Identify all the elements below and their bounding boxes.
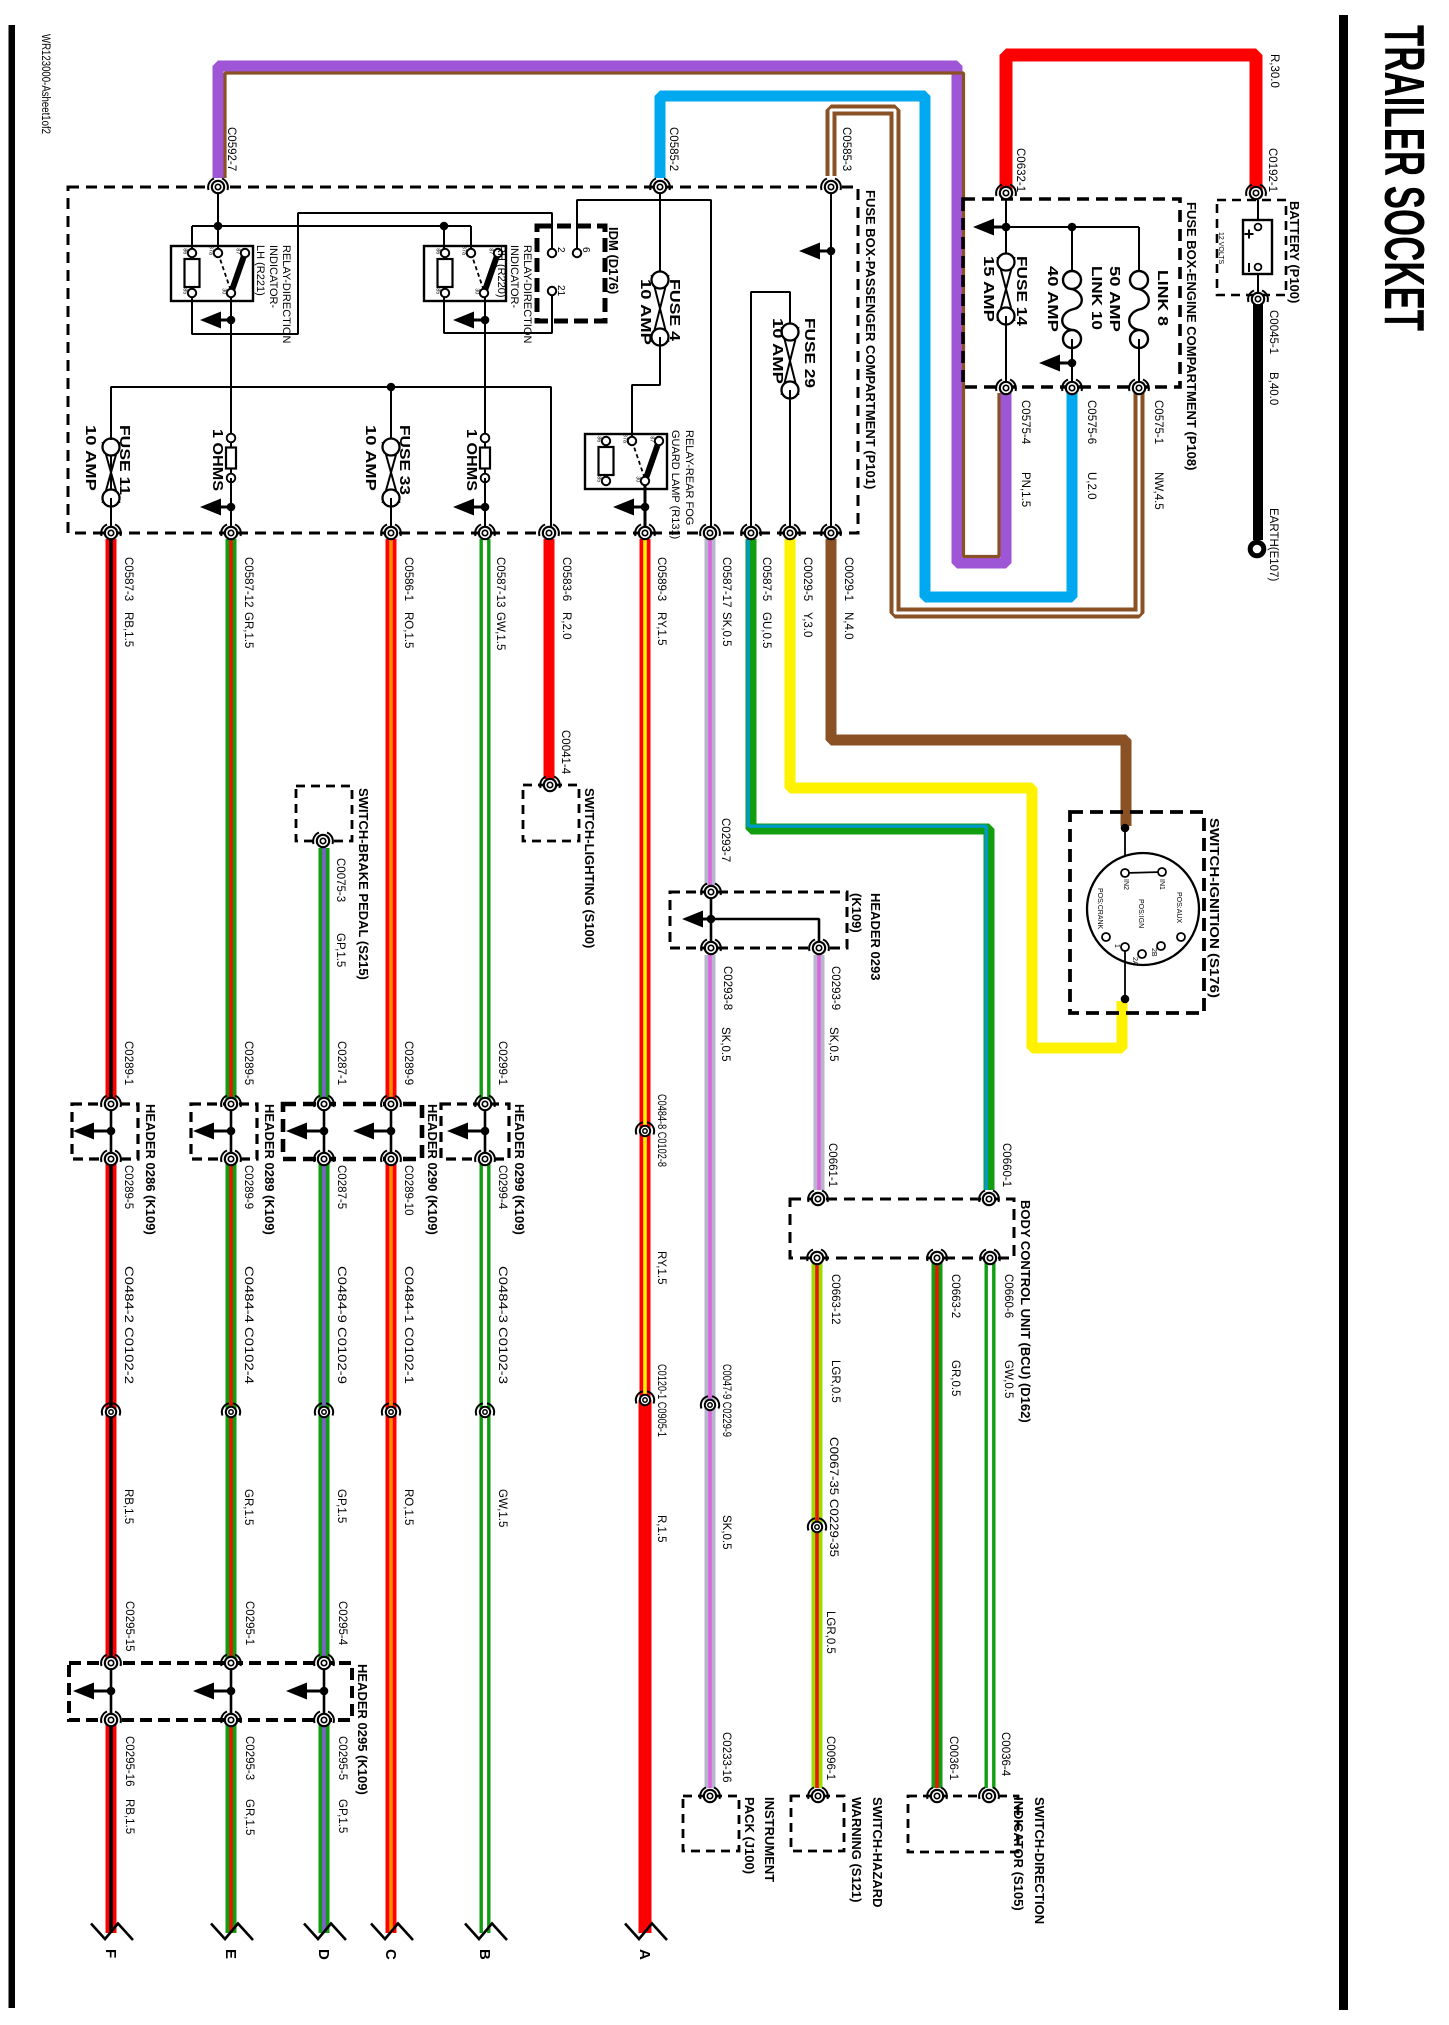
svg-text:C0192-1: C0192-1 xyxy=(1266,148,1278,192)
svg-text:87a: 87a xyxy=(208,246,214,256)
svg-text:SWITCH-HAZARD: SWITCH-HAZARD xyxy=(870,1797,885,1907)
svg-text:30: 30 xyxy=(474,288,480,294)
svg-text:C0587-17: C0587-17 xyxy=(720,557,732,608)
svg-text:C0287-1: C0287-1 xyxy=(335,1041,347,1085)
svg-text:LINK 8: LINK 8 xyxy=(1154,270,1171,326)
svg-text:LGR,0.5: LGR,0.5 xyxy=(824,1611,836,1654)
svg-text:C0036-1: C0036-1 xyxy=(947,1736,959,1780)
svg-text:LINK 10: LINK 10 xyxy=(1088,266,1105,330)
svg-text:FUSE BOX-PASSENGER COMPARTMENT: FUSE BOX-PASSENGER COMPARTMENT (P101) xyxy=(863,190,878,489)
svg-text:C0586-1: C0586-1 xyxy=(402,557,414,601)
svg-text:C0299-4: C0299-4 xyxy=(496,1165,508,1210)
svg-text:C0583-6: C0583-6 xyxy=(560,557,572,601)
svg-text:BODY CONTROL UNIT (BCU) (D162): BODY CONTROL UNIT (BCU) (D162) xyxy=(1018,1200,1033,1423)
svg-text:EARTH(E107): EARTH(E107) xyxy=(1267,508,1279,581)
svg-text:WR123000-Asheet1of2: WR123000-Asheet1of2 xyxy=(39,34,51,134)
svg-text:RB,1.5: RB,1.5 xyxy=(122,1489,134,1524)
svg-text:FUSE 29: FUSE 29 xyxy=(801,318,818,388)
svg-text:A: A xyxy=(636,1949,653,1960)
svg-text:C0663-2: C0663-2 xyxy=(949,1274,961,1318)
svg-text:RB,1.5: RB,1.5 xyxy=(123,1799,135,1834)
svg-text:GU,0.5: GU,0.5 xyxy=(760,612,772,648)
svg-text:12 VOLTS: 12 VOLTS xyxy=(1217,232,1224,264)
svg-text:C0660-1: C0660-1 xyxy=(1000,1143,1012,1187)
svg-text:87a: 87a xyxy=(461,246,467,256)
svg-text:R,30.0: R,30.0 xyxy=(1268,54,1280,88)
svg-text:RY,1.5: RY,1.5 xyxy=(655,612,667,645)
svg-text:C0289-1: C0289-1 xyxy=(122,1041,134,1085)
svg-text:C0289-9: C0289-9 xyxy=(242,1165,254,1209)
svg-text:IN1: IN1 xyxy=(1158,879,1165,890)
svg-text:U,2.0: U,2.0 xyxy=(1085,472,1097,500)
svg-text:C0661-1: C0661-1 xyxy=(826,1143,838,1187)
svg-text:21: 21 xyxy=(555,285,566,297)
svg-text:10 AMP: 10 AMP xyxy=(362,425,379,491)
svg-text:C0575-4: C0575-4 xyxy=(1019,400,1031,445)
svg-text:C0233-16: C0233-16 xyxy=(720,1732,732,1783)
svg-text:HEADER 0299 (K109): HEADER 0299 (K109) xyxy=(512,1104,527,1235)
svg-text:C0029-1: C0029-1 xyxy=(842,557,854,601)
svg-text:87a: 87a xyxy=(622,434,628,444)
svg-text:RB,1.5: RB,1.5 xyxy=(122,612,134,647)
svg-text:SWITCH-DIRECTION: SWITCH-DIRECTION xyxy=(1032,1797,1047,1924)
svg-text:R,1.5: R,1.5 xyxy=(655,1515,667,1543)
svg-text:BATTERY (P100): BATTERY (P100) xyxy=(1287,201,1302,303)
svg-text:C0660-6: C0660-6 xyxy=(1002,1274,1014,1318)
svg-text:C0585-2: C0585-2 xyxy=(667,127,679,171)
svg-text:C0575-1: C0575-1 xyxy=(1152,400,1164,444)
svg-text:HEADER 0289 (K109): HEADER 0289 (K109) xyxy=(262,1104,277,1235)
svg-text:C0287-5: C0287-5 xyxy=(335,1165,347,1209)
svg-text:85: 85 xyxy=(182,288,188,294)
svg-text:2B: 2B xyxy=(1150,948,1157,957)
svg-text:10 AMP: 10 AMP xyxy=(769,318,786,384)
svg-text:B: B xyxy=(476,1949,493,1960)
svg-text:30: 30 xyxy=(635,476,641,482)
svg-text:10 AMP: 10 AMP xyxy=(82,425,99,491)
svg-text:C0663-12: C0663-12 xyxy=(829,1274,841,1325)
svg-text:IDM (D176): IDM (D176) xyxy=(606,227,621,294)
svg-text:Y,3.0: Y,3.0 xyxy=(801,612,813,637)
svg-text:C0575-6: C0575-6 xyxy=(1085,400,1097,444)
svg-text:86: 86 xyxy=(435,248,441,254)
svg-text:C0587-13: C0587-13 xyxy=(494,557,506,608)
svg-text:GP,1.5: GP,1.5 xyxy=(334,933,346,967)
svg-text:87: 87 xyxy=(488,248,494,254)
svg-text:C0587-3: C0587-3 xyxy=(122,557,134,601)
svg-text:POS:AUX: POS:AUX xyxy=(1175,892,1182,923)
svg-text:C0295-1: C0295-1 xyxy=(243,1601,255,1645)
svg-text:C0041-4: C0041-4 xyxy=(559,730,571,775)
svg-text:C0293-9: C0293-9 xyxy=(829,966,841,1010)
svg-text:FUSE 11: FUSE 11 xyxy=(116,425,133,495)
svg-text:C0289-10: C0289-10 xyxy=(402,1165,414,1216)
svg-text:C0293-8: C0293-8 xyxy=(721,966,733,1010)
svg-text:86: 86 xyxy=(596,436,602,442)
svg-text:RY,1.5: RY,1.5 xyxy=(655,1251,667,1284)
svg-text:C0589-3: C0589-3 xyxy=(655,557,667,601)
svg-text:85: 85 xyxy=(596,476,602,482)
svg-text:GUARD LAMP (R131): GUARD LAMP (R131) xyxy=(669,430,681,539)
svg-text:C0484-8 C0102-8: C0484-8 C0102-8 xyxy=(655,1094,667,1167)
svg-text:(K109): (K109) xyxy=(849,893,864,933)
svg-text:PN,1.5: PN,1.5 xyxy=(1019,472,1031,507)
svg-text:C0295-15: C0295-15 xyxy=(123,1601,135,1652)
svg-text:C: C xyxy=(382,1949,399,1960)
svg-text:LGR,0.5: LGR,0.5 xyxy=(829,1360,841,1403)
svg-text:1 OHMS: 1 OHMS xyxy=(209,429,226,491)
svg-text:C0484-9 C0102-9: C0484-9 C0102-9 xyxy=(335,1266,347,1384)
svg-text:6: 6 xyxy=(580,247,591,253)
svg-text:30: 30 xyxy=(221,288,227,294)
svg-text:GR,1.5: GR,1.5 xyxy=(242,1489,254,1525)
svg-text:C0299-1: C0299-1 xyxy=(496,1041,508,1085)
svg-text:N,4.0: N,4.0 xyxy=(842,612,854,640)
svg-text:RELAY-REAR FOG: RELAY-REAR FOG xyxy=(683,430,695,525)
svg-text:B,40.0: B,40.0 xyxy=(1267,372,1279,405)
svg-text:C0295-4: C0295-4 xyxy=(336,1601,348,1646)
svg-text:SK,0.5: SK,0.5 xyxy=(827,1027,839,1062)
svg-text:10 AMP: 10 AMP xyxy=(637,279,654,345)
svg-text:C0075-3: C0075-3 xyxy=(334,858,346,902)
svg-text:C0592-7: C0592-7 xyxy=(225,127,237,171)
svg-text:GR,1.5: GR,1.5 xyxy=(243,1799,255,1835)
svg-text:C0293-7: C0293-7 xyxy=(719,818,731,862)
svg-text:INDICATOR-: INDICATOR- xyxy=(508,245,520,308)
svg-text:IN2: IN2 xyxy=(1122,879,1129,890)
svg-text:C0484-4 C0102-4: C0484-4 C0102-4 xyxy=(242,1266,254,1385)
svg-text:C0067-35 C0229-35: C0067-35 C0229-35 xyxy=(827,1437,839,1557)
svg-text:50 AMP: 50 AMP xyxy=(1106,266,1123,332)
svg-text:INSTRUMENT: INSTRUMENT xyxy=(762,1797,777,1882)
svg-text:C0295-5: C0295-5 xyxy=(336,1736,348,1780)
svg-text:C0036-4: C0036-4 xyxy=(999,1732,1011,1777)
svg-text:FUSE 33: FUSE 33 xyxy=(396,425,413,495)
svg-text:LH (R221): LH (R221) xyxy=(254,245,266,296)
svg-text:85: 85 xyxy=(435,288,441,294)
svg-text:SWITCH-LIGHTING (S100): SWITCH-LIGHTING (S100) xyxy=(582,788,597,948)
svg-text:C0045-1: C0045-1 xyxy=(1267,310,1279,354)
svg-text:87: 87 xyxy=(235,248,241,254)
svg-text:GR,1.5: GR,1.5 xyxy=(242,612,254,648)
svg-text:C0289-9: C0289-9 xyxy=(402,1041,414,1085)
svg-text:E: E xyxy=(222,1949,239,1959)
svg-text:GW,1.5: GW,1.5 xyxy=(494,612,506,650)
svg-text:FUSE 14: FUSE 14 xyxy=(1013,256,1030,327)
svg-text:C0096-1: C0096-1 xyxy=(824,1736,836,1780)
svg-text:GW,1.5: GW,1.5 xyxy=(496,1489,508,1527)
svg-text:RO,1.5: RO,1.5 xyxy=(402,1489,414,1525)
svg-text:D: D xyxy=(315,1949,332,1960)
svg-text:GP,1.5: GP,1.5 xyxy=(336,1799,348,1833)
svg-text:GR,0.5: GR,0.5 xyxy=(949,1360,961,1396)
svg-text:FUSE 4: FUSE 4 xyxy=(666,279,683,342)
svg-text:C0295-3: C0295-3 xyxy=(243,1736,255,1780)
svg-text:GP,1.5: GP,1.5 xyxy=(335,1489,347,1523)
svg-text:SWITCH-IGNITION (S176): SWITCH-IGNITION (S176) xyxy=(1207,818,1222,998)
svg-text:R,2.0: R,2.0 xyxy=(560,612,572,640)
svg-text:RELAY-DIRECTION: RELAY-DIRECTION xyxy=(280,245,292,343)
svg-text:C0029-5: C0029-5 xyxy=(801,557,813,601)
svg-text:RH (R220): RH (R220) xyxy=(495,245,507,298)
svg-text:INDICATOR (S105): INDICATOR (S105) xyxy=(1011,1797,1026,1911)
svg-text:1 OHMS: 1 OHMS xyxy=(463,429,480,491)
svg-text:C0484-2 C0102-2: C0484-2 C0102-2 xyxy=(122,1266,134,1384)
svg-text:HEADER 0286 (K109): HEADER 0286 (K109) xyxy=(143,1104,158,1235)
svg-text:C0585-3: C0585-3 xyxy=(840,127,852,171)
svg-text:HEADER 0290 (K109): HEADER 0290 (K109) xyxy=(425,1104,440,1235)
svg-text:INDICATOR-: INDICATOR- xyxy=(267,245,279,308)
svg-text:SK,0.5: SK,0.5 xyxy=(720,612,732,647)
svg-text:FUSE BOX-ENGINE COMPARTMENT (P: FUSE BOX-ENGINE COMPARTMENT (P108) xyxy=(1184,202,1199,470)
svg-text:SWITCH-BRAKE PEDAL (S215): SWITCH-BRAKE PEDAL (S215) xyxy=(356,788,371,980)
svg-text:RELAY-DIRECTION: RELAY-DIRECTION xyxy=(521,245,533,343)
svg-text:2A: 2A xyxy=(1131,957,1138,966)
svg-text:C0632-1: C0632-1 xyxy=(1014,148,1026,192)
svg-text:RO,1.5: RO,1.5 xyxy=(402,612,414,648)
svg-text:POS:CRANK: POS:CRANK xyxy=(1096,888,1103,930)
svg-text:NW,4.5: NW,4.5 xyxy=(1152,472,1164,510)
svg-text:C0484-1 C0102-1: C0484-1 C0102-1 xyxy=(402,1266,414,1384)
svg-text:TRAILER SOCKET: TRAILER SOCKET xyxy=(1372,25,1436,331)
svg-text:HEADER 0293: HEADER 0293 xyxy=(868,893,883,980)
svg-text:F: F xyxy=(102,1949,119,1958)
svg-text:HEADER 0295 (K109): HEADER 0295 (K109) xyxy=(355,1664,370,1795)
svg-text:C0047-9 C0229-9: C0047-9 C0229-9 xyxy=(720,1364,732,1437)
svg-text:87: 87 xyxy=(649,436,655,442)
svg-text:C0289-5: C0289-5 xyxy=(242,1041,254,1085)
svg-text:SK,0.5: SK,0.5 xyxy=(720,1515,732,1550)
svg-text:40 AMP: 40 AMP xyxy=(1044,266,1061,332)
svg-text:15 AMP: 15 AMP xyxy=(980,256,997,322)
svg-text:C0484-3 C0102-3: C0484-3 C0102-3 xyxy=(496,1266,508,1384)
svg-text:1: 1 xyxy=(1113,944,1120,948)
svg-text:C0587-5: C0587-5 xyxy=(760,557,772,601)
svg-text:C0120-1 C0905-1: C0120-1 C0905-1 xyxy=(655,1364,667,1437)
svg-text:86: 86 xyxy=(182,248,188,254)
svg-text:SK,0.5: SK,0.5 xyxy=(719,1027,731,1062)
svg-text:POS:IGN: POS:IGN xyxy=(1137,899,1144,928)
svg-text:C0289-5: C0289-5 xyxy=(122,1165,134,1209)
svg-text:PACK (J100): PACK (J100) xyxy=(742,1797,757,1874)
svg-text:2: 2 xyxy=(555,247,566,253)
svg-text:GW,0.5: GW,0.5 xyxy=(1002,1360,1014,1398)
svg-text:C0295-16: C0295-16 xyxy=(123,1736,135,1787)
svg-text:WARNING (S121): WARNING (S121) xyxy=(849,1797,864,1902)
svg-text:C0587-12: C0587-12 xyxy=(242,557,254,608)
